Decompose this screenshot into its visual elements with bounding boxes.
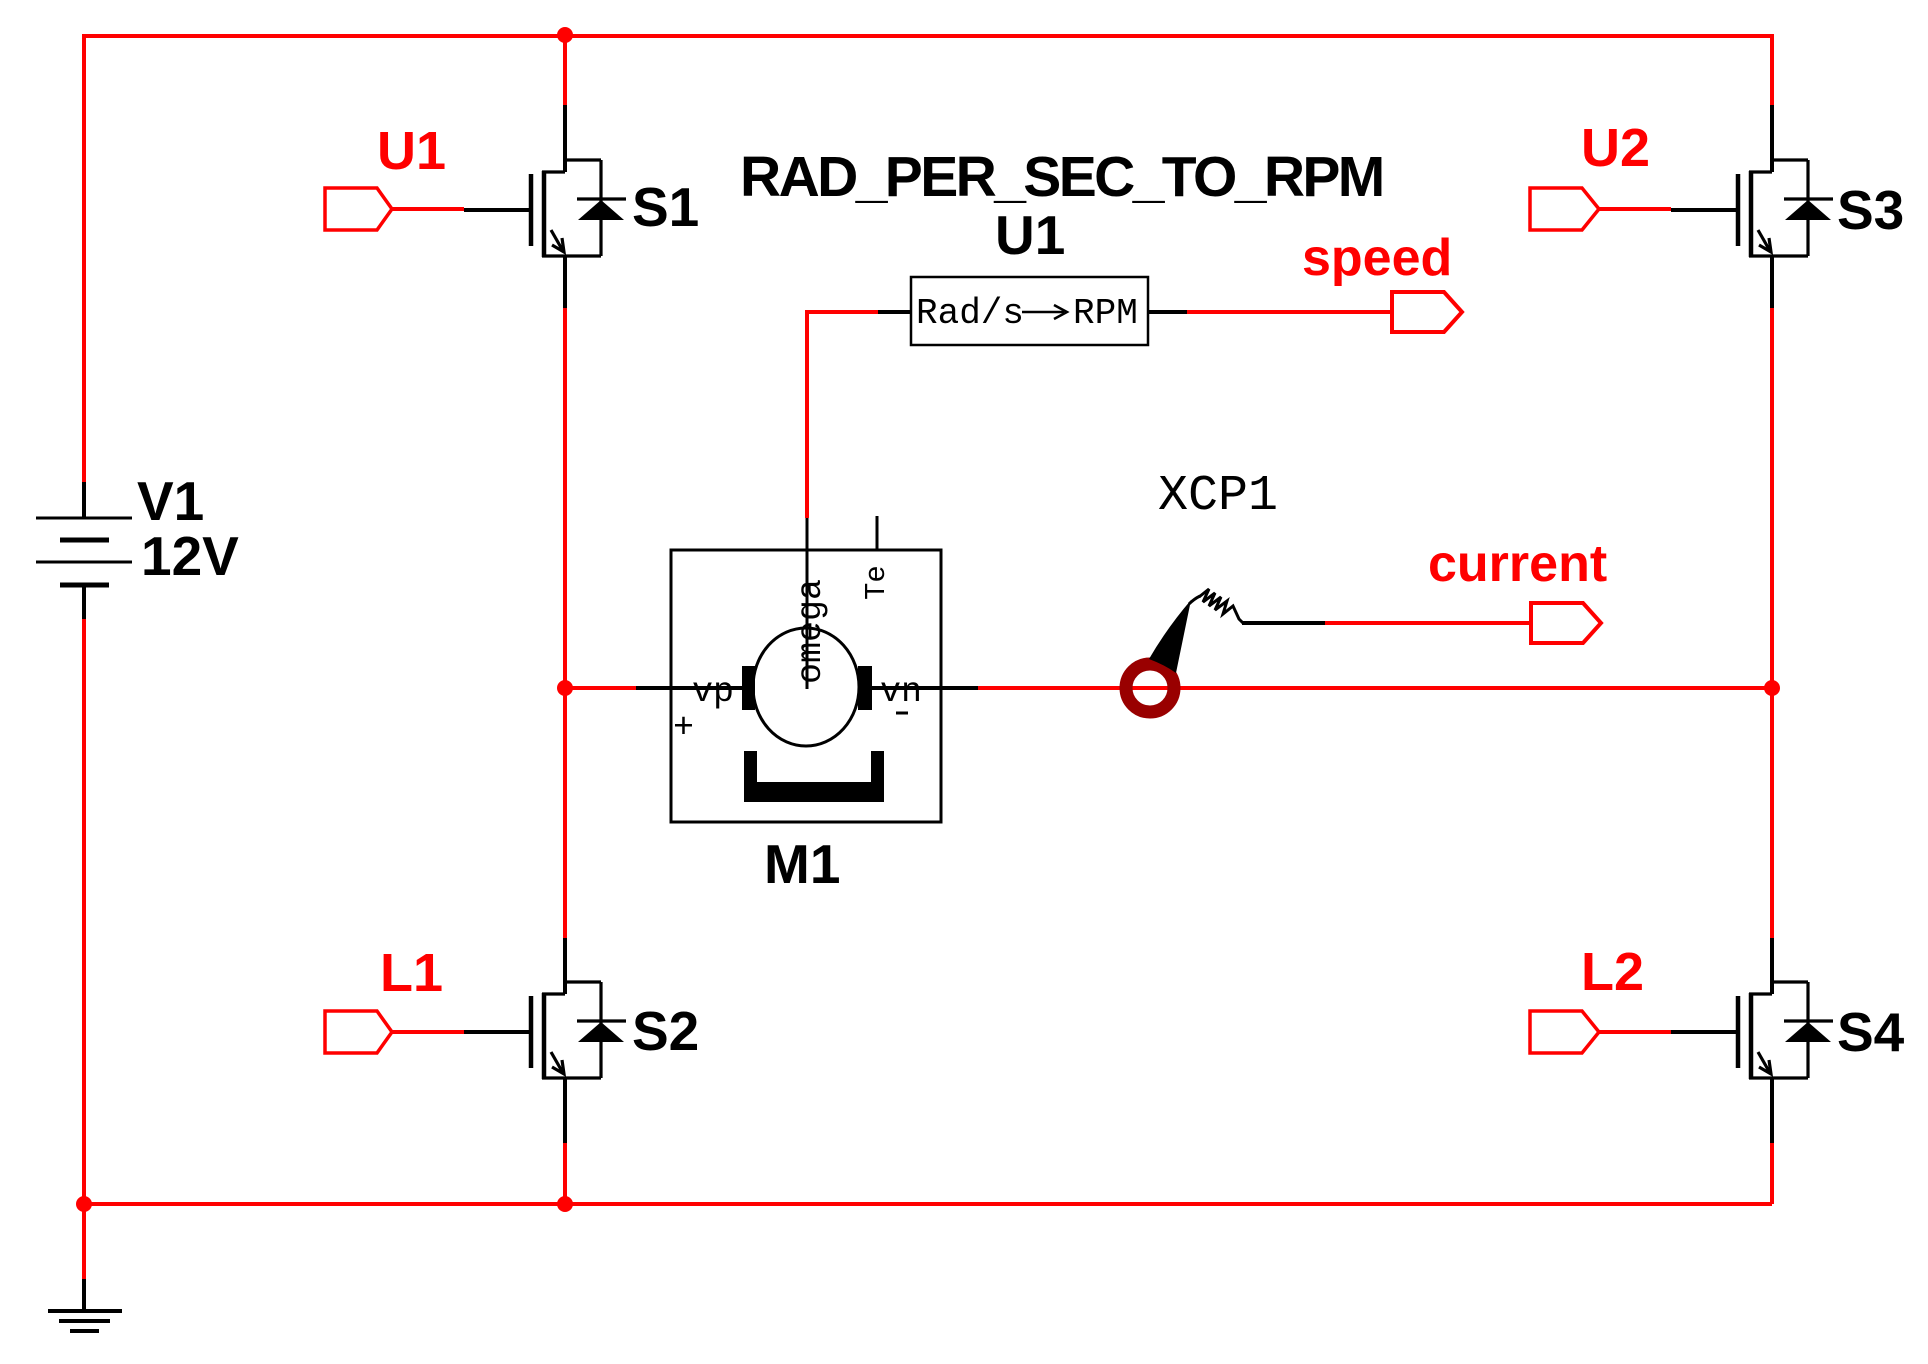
wire motor vn to right rail	[978, 686, 1772, 690]
wire motor Te stub	[876, 516, 879, 550]
svg-text:U1: U1	[995, 204, 1065, 266]
wire S1 drain stub	[563, 105, 567, 172]
wire left rail upper (to V1)	[82, 34, 86, 482]
wire S2 drain stub	[563, 938, 567, 994]
wire probe to current pin	[1325, 621, 1531, 625]
wire L2 pin to S4 gate	[1599, 1030, 1671, 1034]
output pin speed	[1392, 292, 1462, 332]
wire right rail bottom (S4 source to bottom rail)	[1770, 1143, 1774, 1204]
svg-text:U2: U2	[1581, 118, 1650, 178]
wire node to motor vp	[565, 686, 636, 690]
input pin U2	[1530, 188, 1599, 230]
motor M1 right brush	[858, 666, 872, 710]
junction bottom rail / S2 source	[557, 1196, 573, 1212]
input pin L1	[325, 1011, 392, 1053]
svg-text:L2: L2	[1581, 942, 1644, 1002]
motor M1 left brush	[742, 666, 755, 710]
input pin L2	[1530, 1011, 1599, 1053]
wire L1 pin to S2 gate	[392, 1030, 464, 1034]
current probe XCP1 squiggle	[1199, 589, 1243, 623]
motor M1 box	[671, 550, 941, 822]
motor M1 rotor circle	[753, 628, 859, 746]
svg-text:speed: speed	[1302, 229, 1452, 287]
arrow inside block	[1022, 305, 1067, 319]
svg-text:Rad/s: Rad/s	[916, 293, 1024, 334]
output pin current	[1531, 603, 1601, 643]
wire S2 source to bottom rail	[563, 1143, 567, 1204]
wire S2 source stub	[563, 1078, 567, 1143]
svg-text:L1: L1	[380, 943, 443, 1003]
svg-text:Te: Te	[860, 565, 893, 600]
junction top rail / S1 drain	[557, 27, 573, 43]
wire motor vp lead	[636, 686, 742, 690]
wire U2 pin to S3 gate	[1599, 207, 1671, 211]
svg-text:vn: vn	[880, 672, 922, 712]
svg-text:XCP1: XCP1	[1158, 468, 1278, 525]
svg-text:S1: S1	[632, 176, 699, 238]
wire top rail	[84, 34, 1772, 38]
wire U1 pin to S1 gate	[392, 207, 464, 211]
junction bottom rail / ground	[76, 1196, 92, 1212]
battery V1	[36, 482, 132, 619]
wire bottom rail	[84, 1202, 1772, 1206]
wire U1 block output lead	[1148, 310, 1187, 314]
label minus	[896, 712, 908, 715]
wire U1 block input horizontal	[807, 310, 878, 314]
svg-text:RAD_PER_SEC_TO_RPM: RAD_PER_SEC_TO_RPM	[740, 145, 1383, 209]
wire right rail middle (S3 source to S4 drain)	[1770, 308, 1774, 938]
current probe XCP1 ring	[1126, 664, 1174, 712]
wire S1 source to node / S2 drain	[563, 308, 567, 938]
wire left rail lower (V1 to bottom rail)	[82, 619, 86, 1204]
input pin U1	[325, 188, 392, 230]
wire probe black lead	[1242, 621, 1325, 625]
svg-text:S2: S2	[632, 1000, 699, 1062]
wire U1 block output to speed pin	[1187, 310, 1392, 314]
svg-text:RPM: RPM	[1073, 293, 1138, 334]
current probe XCP1 lead curve	[1189, 596, 1200, 604]
junction mid-right node	[1764, 680, 1780, 696]
wire motor omega lead	[806, 518, 809, 689]
svg-text:+: +	[673, 708, 694, 748]
converter block U1 box	[911, 277, 1148, 345]
svg-text:current: current	[1428, 535, 1607, 593]
junction mid-left node	[557, 680, 573, 696]
transistor S4	[1671, 982, 1833, 1079]
svg-text:S4: S4	[1837, 1001, 1905, 1063]
svg-text:S3: S3	[1837, 179, 1904, 241]
wire S3 drain stub	[1770, 105, 1774, 172]
wire S1 source stub	[563, 256, 567, 308]
wire U1 block input vertical to motor omega	[805, 310, 809, 518]
ground	[48, 1279, 122, 1331]
wire S4 drain stub	[1770, 938, 1774, 994]
wire S1 drain to top rail	[563, 36, 567, 105]
current probe XCP1 clamp jaw	[1149, 600, 1191, 673]
svg-text:V1: V1	[137, 470, 204, 532]
svg-text:U1: U1	[377, 121, 446, 181]
wire S3 source stub	[1770, 256, 1774, 308]
svg-text:M1: M1	[764, 833, 840, 895]
motor M1 mount bracket	[744, 751, 884, 802]
svg-text:vp: vp	[692, 672, 734, 712]
svg-text:omega: omega	[791, 579, 831, 684]
wire right rail top (to S3 drain)	[1770, 34, 1774, 105]
transistor S3	[1671, 160, 1833, 257]
wire U1 block input lead	[878, 310, 911, 314]
wire motor vn lead	[872, 686, 978, 690]
transistor S1	[464, 160, 626, 257]
wire ground drop	[82, 1204, 86, 1279]
svg-text:12V: 12V	[141, 525, 239, 587]
transistor S2	[464, 982, 626, 1079]
wire S4 source stub	[1770, 1078, 1774, 1143]
